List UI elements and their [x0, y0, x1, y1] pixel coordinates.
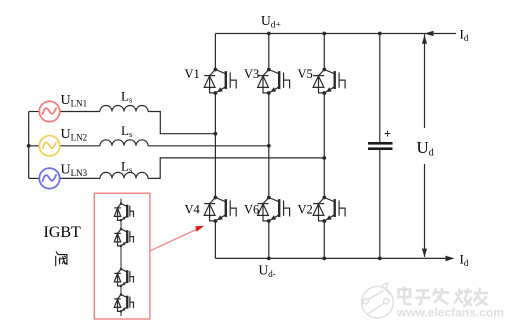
arrow red callout to V4	[150, 226, 205, 251]
inductor Ls phase1	[100, 106, 148, 112]
wire phase1 source to inductor	[60, 111, 100, 113]
wire phase2 source to inductor	[60, 145, 100, 147]
wire bottom rail	[215, 257, 446, 259]
IGBT V5	[313, 68, 345, 95]
arrow Id top (left pointing)	[425, 31, 434, 37]
wire bridge leg2 middle	[268, 93, 270, 198]
wire bridge leg1 middle	[214, 93, 216, 198]
source ULN1 (red)	[39, 101, 59, 121]
wire capacitor branch top	[379, 34, 381, 143]
wire bridge leg3 bottom	[323, 221, 325, 258]
arrow Ud line up arrowhead	[422, 35, 427, 44]
wire capacitor branch bottom	[379, 150, 381, 258]
node phase2-leg2 junction	[267, 144, 271, 148]
svg-text:V5: V5	[298, 67, 313, 81]
IGBT V3	[258, 68, 290, 95]
wire top rail	[215, 33, 456, 35]
svg-text:V4: V4	[185, 203, 201, 217]
svg-text:V2: V2	[298, 203, 313, 217]
IGBT valve cell 4	[114, 293, 133, 313]
wire valve chain link 3-4	[120, 286, 122, 295]
IGBT valve cell 3	[114, 268, 133, 288]
IGBT V4	[204, 196, 236, 223]
wire phase3 source to inductor	[60, 177, 100, 179]
IGBT valve cell 2	[114, 228, 133, 248]
wire Ud measurement line upper	[424, 34, 426, 128]
wire phase1 inductor to bridge leg1	[148, 112, 215, 134]
node bus junction	[27, 144, 31, 148]
wire stub phase1 to source	[29, 111, 40, 113]
wire bridge leg2 bottom	[268, 221, 270, 258]
IGBT V6	[258, 196, 290, 223]
node phase1-leg1 junction	[214, 132, 218, 136]
svg-text:V1: V1	[185, 67, 200, 81]
svg-text:+: +	[384, 127, 391, 141]
wire phase3 inductor to bridge leg3	[148, 158, 324, 179]
inductor Ls phase2	[100, 140, 148, 146]
arrow Id bottom (right pointing)	[446, 256, 455, 262]
wire valve chain bottom lead	[120, 311, 122, 316]
wire stub phase2 to source	[29, 145, 40, 147]
node bottom rail leg3	[322, 257, 326, 261]
svg-text:www.elecfans.com: www.elecfans.com	[396, 305, 504, 319]
wire bridge leg1 bottom	[214, 221, 216, 258]
wire valve chain top lead	[120, 199, 122, 204]
watermark text dianzifashaoyou	[399, 286, 489, 306]
IGBT valve red box	[94, 193, 150, 319]
node bottom rail leg2	[267, 257, 271, 261]
label valve (Chinese char fa)	[56, 252, 67, 266]
svg-text:IGBT: IGBT	[44, 224, 82, 241]
op IGBT V1	[204, 68, 236, 95]
arrow Ud line down arrowhead	[422, 249, 427, 258]
wire bridge leg2 top	[268, 34, 270, 70]
watermark logo elecfans	[362, 283, 394, 318]
wire valve chain link 2-3	[120, 246, 122, 269]
IGBT valve cell 1	[114, 202, 133, 222]
node top rail leg2	[267, 32, 271, 36]
IGBT V2	[313, 196, 345, 223]
wire bridge leg3 top	[323, 34, 325, 70]
svg-text:V6: V6	[244, 203, 259, 217]
node phase3-leg3 junction	[322, 156, 326, 160]
wire stub phase3 to source	[29, 177, 40, 179]
node top rail leg3	[322, 32, 326, 36]
svg-text:V3: V3	[244, 67, 259, 81]
wire bridge leg1 top	[214, 34, 216, 70]
node bottom rail cap branch	[378, 257, 382, 261]
wire Ud measurement line lower	[424, 164, 426, 257]
source ULN3 (blue)	[39, 168, 59, 188]
wire phase2 inductor to bridge leg2	[148, 145, 269, 147]
wire valve chain link 1-2	[120, 220, 122, 229]
inductor Ls phase3	[100, 172, 148, 178]
wire bridge leg3 middle	[323, 93, 325, 198]
capacitor plates	[368, 142, 393, 150]
source ULN2 (yellow)	[39, 136, 59, 156]
node top rail cap branch	[378, 32, 382, 36]
wire left bus vertical	[28, 112, 30, 179]
